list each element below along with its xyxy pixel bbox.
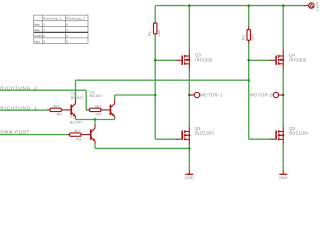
node top rail junction B — [188, 4, 191, 7]
svg-text:IRF5305: IRF5305 — [195, 57, 213, 62]
svg-text:4k7: 4k7 — [74, 128, 81, 133]
svg-text:0: 0 — [43, 40, 45, 44]
resistor R4 — [47, 104, 71, 117]
node gate1 junction T3 collector — [154, 94, 157, 97]
wire Q4/Q2 drain column — [282, 6, 284, 171]
label T2 — [71, 91, 84, 100]
svg-text:Richtung_2: Richtung_2 — [66, 17, 85, 21]
wire T2 collector rail — [76, 80, 249, 100]
resistor R1 — [147, 22, 161, 37]
label Q2 — [289, 126, 308, 136]
truth table Richtung — [34, 15, 88, 43]
svg-text:1: 1 — [43, 22, 45, 26]
resistor R2 — [240, 26, 254, 43]
wire T1 emitter to GND rail — [95, 144, 189, 148]
transistor Q4 (IRF5305 P-MOSFET) — [269, 50, 284, 69]
svg-text:MOTOR-1: MOTOR-1 — [200, 93, 223, 98]
svg-text:BC547: BC547 — [90, 93, 103, 98]
svg-text:R1: R1 — [147, 31, 152, 36]
transistor T2 (BC547) — [70, 100, 75, 120]
label T1 — [70, 115, 83, 125]
node top rail junction D — [282, 4, 285, 7]
svg-text:rechts: rechts — [34, 34, 42, 38]
node top rail junction C — [247, 4, 250, 7]
svg-text:4k7: 4k7 — [53, 104, 60, 109]
svg-text:GND: GND — [185, 176, 194, 180]
svg-text:IRF5305: IRF5305 — [289, 57, 307, 62]
svg-text:R4: R4 — [57, 112, 63, 117]
svg-text:2k2: 2k2 — [156, 30, 161, 37]
wire Q3/Q1 drain column — [188, 6, 190, 171]
svg-text:1: 1 — [66, 34, 68, 38]
node gate2 junction at R2 — [247, 59, 250, 62]
node MOTOR-2 junction — [282, 94, 285, 97]
svg-text:links: links — [34, 22, 40, 26]
node MOTOR-1 junction — [188, 94, 191, 97]
wire gate column 1 (R1 to Q1 gate) — [155, 35, 175, 139]
svg-text:R3: R3 — [76, 137, 81, 142]
transistor T3 (BC547) — [110, 100, 115, 120]
transistor Q1 (BUZ11BV N-MOSFET) — [175, 127, 190, 145]
svg-text:0: 0 — [66, 40, 68, 44]
svg-text:+12V: +12V — [315, 1, 320, 11]
wire emitter rail T2/T3 — [76, 117, 115, 119]
wire T3 collector to gate column 1 — [115, 95, 156, 100]
label Q4 — [289, 53, 307, 63]
wire Q3 gate — [155, 59, 175, 61]
svg-text:BUZ11BV: BUZ11BV — [289, 131, 308, 136]
svg-text:BC547: BC547 — [70, 119, 83, 124]
svg-text:0: 0 — [43, 34, 45, 38]
svg-text:R5: R5 — [96, 112, 101, 117]
svg-text:BUZ11BV: BUZ11BV — [195, 131, 214, 136]
transistor Q3 (IRF5305 P-MOSFET) — [175, 50, 190, 69]
wire R2 column top — [248, 6, 250, 27]
resistor R5 — [86, 104, 109, 117]
label T3 — [90, 90, 103, 99]
node gate2 junction T2 collector — [247, 79, 250, 82]
svg-text:BC547: BC547 — [71, 95, 84, 100]
label Q1 — [195, 126, 214, 136]
wire PWM-PORT — [0, 134, 67, 136]
wire T1 collector — [94, 120, 96, 125]
pin MOTOR-1 — [189, 92, 223, 97]
svg-text:1: 1 — [66, 28, 68, 32]
svg-text:stop: stop — [34, 28, 39, 32]
ground GND2 — [279, 170, 288, 180]
resistor R3 — [67, 128, 90, 142]
node gate1 junction at R1 — [154, 59, 157, 62]
wire gate column 2 (R2 to Q2 gate) — [249, 44, 270, 140]
pin MOTOR-2 — [250, 92, 283, 97]
svg-text:Richtung_1: Richtung_1 — [43, 17, 62, 21]
svg-text:MOTOR-2: MOTOR-2 — [250, 93, 273, 98]
node GND1 junction — [188, 147, 191, 150]
svg-text:stop: stop — [34, 40, 39, 44]
transistor Q2 (BUZ11BV N-MOSFET) — [269, 127, 284, 145]
label Q3 — [195, 53, 213, 63]
svg-text:R2: R2 — [240, 35, 245, 40]
wire RICHTUNG_1 — [0, 109, 47, 111]
wire RICHTUNG_2 — [0, 90, 86, 110]
supply +12V — [304, 1, 320, 11]
svg-text:1: 1 — [43, 28, 45, 32]
wire R1 column top — [154, 6, 156, 22]
node T1 collector junction — [94, 118, 97, 121]
ground GND1 — [185, 170, 194, 180]
wire Q4 gate — [249, 59, 270, 61]
svg-text:4k7: 4k7 — [95, 104, 102, 109]
wire +12V top rail — [155, 5, 304, 7]
svg-text:GND: GND — [279, 176, 288, 180]
svg-text:0: 0 — [66, 22, 68, 26]
svg-text:2k2: 2k2 — [249, 34, 254, 41]
svg-text:PWM-PORT: PWM-PORT — [0, 130, 29, 135]
transistor T1 (BC547) — [90, 125, 95, 145]
